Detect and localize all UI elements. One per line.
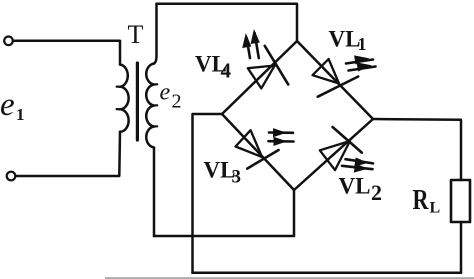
secondary coil cusp ticks	[154, 84, 157, 126]
wire transformer bottom to bridge AC2	[154, 190, 294, 236]
VL3 emission arrow a	[269, 131, 293, 134]
diode VL1 triangle	[313, 59, 340, 84]
primary coil cusp ticks	[117, 87, 120, 110]
svg-text:L: L	[430, 200, 441, 217]
scan edge artifact bottom	[105, 277, 474, 279]
wire secondary top lead	[154, 4, 157, 64]
wire load bottom lead	[460, 222, 463, 273]
svg-text:3: 3	[232, 167, 242, 188]
diode VL2 triangle	[320, 141, 350, 170]
svg-text:R: R	[413, 184, 430, 216]
diode VL3 cathode bar	[247, 150, 278, 169]
wire DC minus: left vertex down	[193, 114, 223, 273]
svg-text:2: 2	[172, 91, 182, 113]
wire top: secondary to bridge AC1	[157, 4, 298, 41]
wire bottom return	[193, 272, 462, 275]
wire secondary bottom lead	[153, 148, 156, 237]
svg-text:1: 1	[358, 34, 367, 54]
diode VL4 triangle	[248, 66, 275, 89]
wire DC plus: right vertex to load	[373, 119, 461, 180]
diode VL1 cathode bar	[318, 77, 358, 97]
transformer core	[136, 63, 139, 140]
wire bridge branch left-top	[222, 41, 297, 114]
diode VL3 triangle	[236, 130, 263, 157]
VL4 emission arrow b	[255, 33, 259, 58]
svg-text:e: e	[0, 87, 15, 123]
wire input top	[13, 41, 120, 65]
resistor RL body	[451, 180, 470, 222]
svg-text:2: 2	[371, 180, 382, 205]
svg-text:1: 1	[16, 105, 25, 124]
svg-text:VL: VL	[329, 27, 361, 52]
terminal top-left	[4, 37, 13, 46]
wire bridge branch bottom-right	[294, 119, 373, 190]
wire primary bottom lead	[16, 132, 120, 176]
transformer secondary coil	[146, 64, 154, 148]
transformer primary coil	[120, 65, 129, 132]
diode VL2 cathode bar	[333, 127, 362, 153]
svg-text:VL: VL	[339, 174, 371, 199]
diode VL4 cathode bar	[265, 46, 288, 85]
VL1 emission arrow a	[346, 60, 373, 64]
wire bridge branch left-bottom	[222, 114, 294, 190]
VL2 emission arrow a	[346, 159, 374, 163]
wire bridge branch top-right	[297, 41, 373, 119]
VL1 emission arrow b	[349, 67, 376, 71]
svg-text:4: 4	[221, 59, 232, 83]
terminal bottom-left	[7, 172, 16, 181]
svg-text:T: T	[128, 20, 144, 49]
svg-text:e: e	[160, 80, 171, 106]
VL2 emission arrow b	[342, 166, 373, 169]
VL3 emission arrow b	[269, 140, 294, 143]
VL4 emission arrow a	[247, 38, 250, 58]
